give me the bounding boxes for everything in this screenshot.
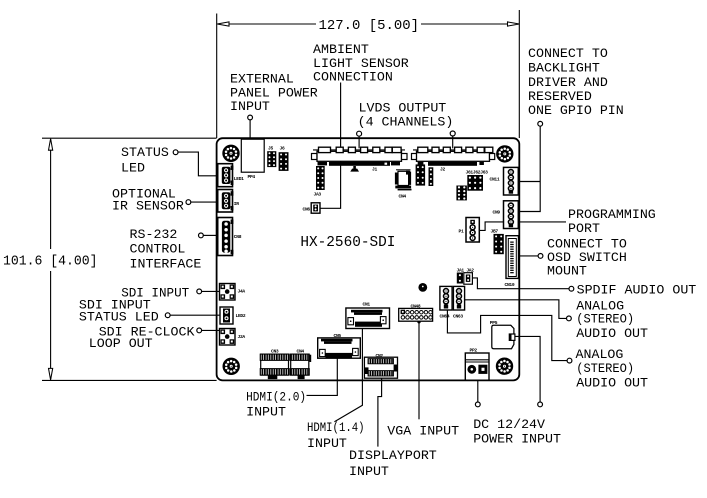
svg-text:INPUT: INPUT [230,99,270,114]
svg-text:CONTROL: CONTROL [130,242,186,257]
svg-text:(4 CHANNELS): (4 CHANNELS) [358,115,454,130]
label ANALOG (STEREO) AUDIO OUT lower [576,347,649,390]
svg-text:IR SENSOR: IR SENSOR [112,198,184,213]
svg-text:J61J62J63: J61J62J63 [466,170,489,176]
leader OSD SWITCH to CN10 [519,254,543,259]
svg-text:STATUS: STATUS [121,145,169,160]
svg-text:STATUS LED: STATUS LED [79,309,159,324]
connector CN9 [493,201,519,229]
connector CN2 displayport [364,353,397,378]
dimension 101.6 [4.00] vertical [3,138,217,380]
svg-text:CN10: CN10 [505,282,515,288]
leader DC power to PP2 [475,380,480,407]
svg-text:JA3: JA3 [314,192,322,198]
label CONNECT TO OSD SWITCH MOUNT [547,237,627,279]
leader SDI INPUT STATUS LED [165,313,219,318]
dimension 127.0 [5.00] horizontal [217,10,520,138]
connector CN8 rs-232 [218,218,242,256]
svg-text:CN1: CN1 [363,301,371,307]
connector J1 lvds output [312,147,408,172]
svg-text:DISPLAYPORT: DISPLAYPORT [349,448,437,463]
svg-text:DRIVER AND: DRIVER AND [528,75,608,90]
leader VGA to CN48 [417,320,420,419]
svg-text:JB7: JB7 [491,229,499,235]
jack PP5 dc power [490,320,515,349]
svg-text:CONNECT TO: CONNECT TO [528,46,608,61]
leader EXTERNAL PANEL POWER [248,115,253,138]
leader SDI RE-CLOCK [197,328,220,333]
svg-text:RESERVED: RESERVED [528,89,592,104]
label LVDS OUTPUT (4 CHANNELS) [358,101,454,130]
mounting hole top-left [223,145,239,161]
svg-text:AUDIO OUT: AUDIO OUT [576,375,648,390]
mounting hole bottom-left [223,358,239,374]
leader STATUS LED [173,150,217,176]
label DC 12/24V POWER INPUT [473,417,561,446]
mounting hole top-right [497,146,513,162]
svg-text:CN9: CN9 [493,210,501,216]
svg-text:CN8: CN8 [234,234,242,240]
label SDI RE-CLOCK LOOP OUT [89,324,195,351]
label DISPLAYPORT INPUT [349,448,437,479]
header JA3 [314,166,325,198]
label SDI INPUT [121,285,189,300]
svg-text:BACKLIGHT: BACKLIGHT [528,61,600,76]
svg-text:EXTERNAL: EXTERNAL [230,71,294,86]
svg-text:CONNECTION: CONNECTION [313,70,393,85]
label HDMI(2.0) INPUT [246,389,306,419]
svg-text:(STEREO): (STEREO) [576,312,634,327]
svg-text:INPUT: INPUT [246,404,286,419]
svg-text:HDMI(2.0): HDMI(2.0) [246,389,306,404]
header CN48 vga [399,303,433,321]
svg-text:RS-232: RS-232 [130,227,178,242]
svg-text:J1: J1 [372,167,377,173]
leader DC power to PP5 [515,336,543,406]
svg-text:CN63: CN63 [453,314,463,320]
leader BACKLIGHT to CN11 CN9 [518,121,542,211]
connector PP4 external panel power [241,139,264,180]
label OPTIONAL IR SENSOR [112,186,184,213]
svg-text:J2A: J2A [238,334,246,340]
label SPDIF AUDIO OUT [577,283,697,298]
connector P1 programming port [459,218,480,243]
leader HDMI(2.0) to CN5 [307,358,338,395]
svg-text:LOOP OUT: LOOP OUT [89,336,153,351]
svg-text:(STEREO): (STEREO) [576,361,634,376]
connector J2 lvds output [412,147,495,172]
connector CN10 osd switch [505,236,519,288]
leader ANALOG upper to CN63 [465,300,572,321]
svg-text:AUDIO OUT: AUDIO OUT [576,326,648,341]
board name HX-2560-SDI [300,235,395,251]
connector J2A sdi re-clock loop out [220,329,246,346]
svg-text:CN64: CN64 [440,314,450,320]
board outline [217,138,520,380]
headers JA1 JA2 spdif [457,268,475,285]
svg-text:J6: J6 [280,146,285,152]
svg-text:HX-2560-SDI: HX-2560-SDI [300,235,395,251]
connector CN11 backlight [490,167,519,195]
label VGA INPUT [387,424,459,439]
svg-text:INPUT: INPUT [307,436,347,451]
svg-text:AMBIENT: AMBIENT [313,42,369,57]
label PROGRAMMING PORT [568,207,656,236]
leader LVDS J2 [450,131,455,148]
svg-text:CN6: CN6 [303,207,311,213]
header 1x4 strip [429,167,434,186]
svg-text:ANALOG: ANALOG [576,347,624,362]
connector CN63 analog audio [453,286,465,319]
svg-text:SPDIF AUDIO OUT: SPDIF AUDIO OUT [577,283,697,298]
leader AMBIENT LIGHT SENSOR to CN6 [320,83,341,209]
svg-text:ONE GPIO PIN: ONE GPIO PIN [528,103,624,118]
headers J61 J62 J63 [456,170,488,201]
header 2x5 right of CN4 [416,164,426,185]
header J6 [279,146,289,171]
svg-text:J5: J5 [268,146,273,152]
leader PROGRAMMING PORT to P1 [480,222,567,231]
svg-text:101.6 [4.00]: 101.6 [4.00] [3,254,98,270]
connector CN5 hdmi 2.0 [318,333,361,358]
svg-text:LED2: LED2 [236,313,246,319]
connector CN64 analog audio [440,286,453,319]
connector IR optional ir sensor [218,190,240,213]
label SDI INPUT STATUS LED [79,298,159,325]
label ANALOG (STEREO) AUDIO OUT upper [576,298,648,341]
svg-text:LVDS OUTPUT: LVDS OUTPUT [359,101,447,116]
svg-text:PP4: PP4 [248,174,256,180]
leader LVDS J1 [357,131,362,148]
leader DISPLAYPORT to CN2 [378,378,382,446]
svg-text:LED: LED [121,161,145,176]
label STATUS LED [121,145,169,176]
terminal PP2 dc power [465,348,489,381]
label EXTERNAL PANEL POWER INPUT [230,71,318,114]
svg-text:MOUNT: MOUNT [547,264,587,279]
svg-text:HDMI(1.4): HDMI(1.4) [307,420,365,435]
connector LED2 sdi status led [220,307,246,324]
header J5 [267,146,276,168]
ic CN4 top [395,170,412,200]
leader RS-232 [199,233,218,238]
label HDMI(1.4) INPUT [307,420,365,451]
svg-text:J4A: J4A [238,289,246,295]
leader SDI INPUT [197,289,220,294]
connector CN3 hdmi area [260,349,289,380]
leader ANALOG lower to CN64 [447,310,571,363]
mounting hole bottom-right [496,358,512,374]
svg-text:PORT: PORT [568,221,600,236]
svg-text:CN11: CN11 [490,177,500,183]
svg-text:VGA INPUT: VGA INPUT [387,424,459,439]
svg-text:DC 12/24V: DC 12/24V [473,417,545,432]
svg-text:POWER INPUT: POWER INPUT [473,432,561,447]
svg-text:CN4: CN4 [399,194,407,200]
svg-text:P1: P1 [459,229,464,235]
svg-text:INTERFACE: INTERFACE [130,256,202,271]
connector CN6 ambient light sensor [303,203,321,213]
connector J4A sdi input [220,284,246,301]
leader HDMI(1.4) to CN1 [334,329,362,422]
leader SPDIF to JA2 [472,278,573,291]
connector CN1 hdmi 1.4 [346,301,390,328]
svg-text:LED1: LED1 [234,176,244,182]
svg-text:INPUT: INPUT [349,464,389,479]
svg-text:IR: IR [234,201,239,207]
svg-text:PROGRAMMING: PROGRAMMING [568,207,656,222]
connector LED1 status led [218,164,244,187]
header JB7 [491,229,504,255]
label RS-232 CONTROL INTERFACE [130,227,202,271]
svg-text:J2: J2 [440,167,445,173]
connector CN4 bottom [290,349,311,380]
test point dot [418,283,427,292]
svg-text:127.0 [5.00]: 127.0 [5.00] [319,18,420,34]
label CONNECT TO BACKLIGHT DRIVER AND RESERVED ONE GPIO PIN [528,46,624,118]
label AMBIENT LIGHT SENSOR CONNECTION [313,42,409,85]
leader IR SENSOR [186,200,217,205]
